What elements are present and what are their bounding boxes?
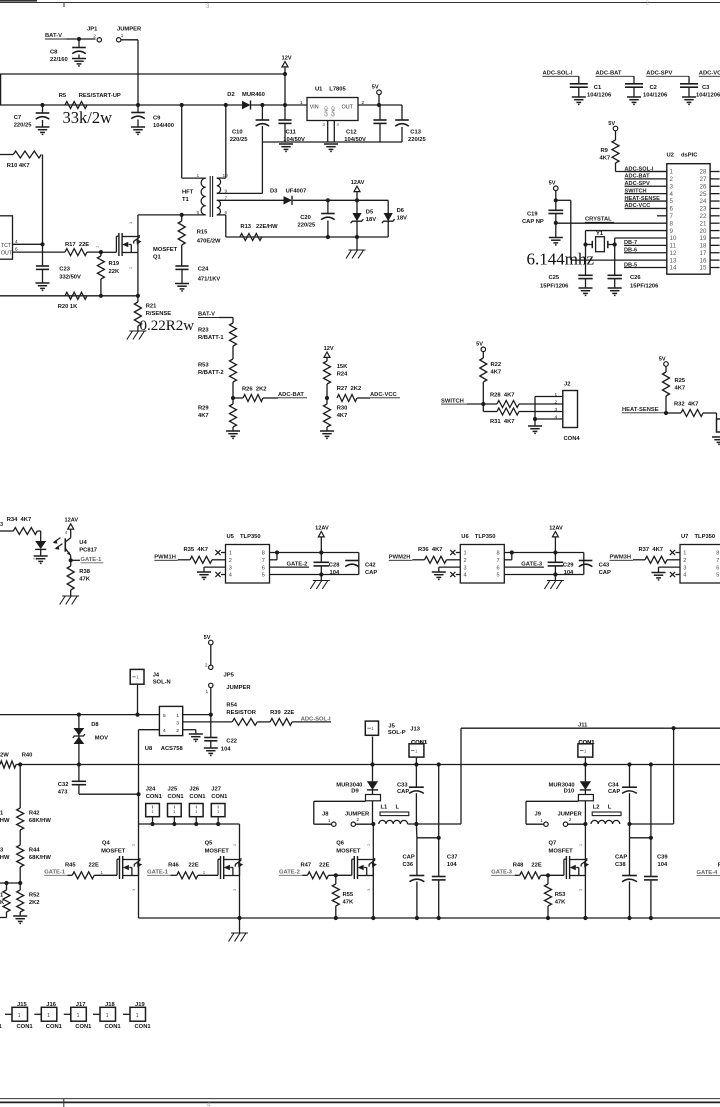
resistor R54 (232, 718, 257, 725)
svg-text:D5: D5 (366, 210, 374, 216)
resistor R53 (230, 359, 237, 382)
svg-text:U6: U6 (461, 534, 469, 540)
junction C39 rail (649, 916, 653, 920)
svg-text:L: L (608, 805, 612, 811)
wire U2 pin7 stub (657, 215, 667, 217)
svg-text:104/50V: 104/50V (344, 137, 366, 143)
no-connect X U6 pin4 (450, 572, 455, 577)
junction pin4-C23 (40, 242, 44, 246)
connector J5 (365, 721, 378, 735)
ground R30 (320, 430, 334, 432)
capacitor C33 (415, 765, 417, 788)
junction 5V-C12 (377, 103, 381, 107)
junction J26 bus (194, 822, 198, 826)
junction J13 rail (414, 762, 418, 766)
svg-text:R45 22E: R45 22E (65, 863, 99, 869)
wire R42 chain top (19, 765, 21, 809)
svg-text:CAP: CAP (403, 855, 415, 861)
svg-text:8: 8 (497, 551, 500, 557)
ground U7 pin3 (652, 572, 666, 574)
junction C38 jog (649, 836, 653, 840)
svg-text:D8: D8 (91, 722, 99, 728)
svg-text:TLP350: TLP350 (240, 534, 261, 540)
svg-text:104/1206: 104/1206 (587, 93, 612, 99)
opto U4 light arrows (54, 538, 61, 543)
svg-text:R21: R21 (146, 304, 157, 310)
svg-text:5: 5 (670, 198, 674, 205)
wire R27 to label (357, 397, 370, 399)
svg-text:C29: C29 (563, 562, 574, 568)
svg-text:4: 4 (229, 573, 232, 579)
wire C32 bottom (78, 785, 80, 795)
svg-text:1: 1 (555, 392, 558, 398)
svg-text:12AV: 12AV (315, 525, 329, 531)
connector J13 (409, 744, 424, 757)
wire U8 pin4 down (138, 730, 140, 824)
junction C34 rail (627, 762, 631, 766)
wire D2 cathode (251, 104, 308, 106)
wire R32 to J3 (703, 412, 717, 414)
capacitor C11 plates (278, 119, 291, 121)
svg-text:T1: T1 (182, 197, 190, 203)
junction J11 right (672, 726, 676, 730)
wire HVDC row (0, 104, 242, 106)
svg-text:JUMPER: JUMPER (117, 27, 142, 33)
svg-text:R35 4K7: R35 4K7 (184, 547, 209, 553)
transistor Q5 (217, 874, 220, 876)
opto driver U6 (460, 545, 504, 584)
capacitor C36 (416, 838, 418, 876)
wire J8 pin2 to node (356, 823, 374, 825)
junction D5 top (355, 198, 359, 202)
svg-text:15PF/1206: 15PF/1206 (540, 284, 569, 290)
svg-text:R19: R19 (109, 261, 120, 267)
svg-text:D10: D10 (564, 789, 575, 795)
ground C9 (131, 126, 145, 128)
svg-text:104: 104 (564, 570, 574, 576)
svg-text:C13: C13 (410, 130, 421, 136)
zener D6 (387, 200, 389, 213)
svg-text:CON1: CON1 (105, 1024, 122, 1030)
wire C2 drop (633, 76, 635, 84)
wire 5V stem R22 (482, 352, 484, 358)
wire GATE-1 to R45 (68, 874, 73, 876)
svg-text:MOSFET: MOSFET (101, 849, 126, 855)
wire U2 pin 18 stub (710, 244, 720, 246)
wire R54 to R39 (257, 721, 270, 723)
svg-text:2: 2 (670, 176, 674, 183)
svg-text:J5: J5 (388, 724, 395, 730)
capacitor C12 plates (373, 119, 386, 121)
svg-text:R53: R53 (555, 892, 566, 898)
wire U2 pin 16 stub (710, 259, 720, 261)
ground C1 (572, 96, 586, 98)
svg-text:VIN: VIN (310, 104, 319, 110)
svg-text:CAP: CAP (365, 570, 377, 576)
svg-text:CAP: CAP (608, 789, 620, 795)
junction heat-sense (664, 411, 668, 415)
svg-text:R13: R13 (240, 224, 251, 230)
wire C38 jog (629, 824, 631, 838)
wire Y1 left vertical (585, 231, 587, 245)
ground C3 (682, 96, 696, 98)
opto U4 LED (35, 541, 46, 549)
svg-text:33k/2w: 33k/2w (63, 108, 113, 127)
junction D10 L2 node (583, 822, 587, 826)
svg-text:GATE-2: GATE-2 (279, 870, 300, 876)
svg-text:ADC-SPV: ADC-SPV (646, 71, 672, 77)
svg-text:1: 1 (197, 173, 200, 179)
opto U4 transistor (64, 538, 66, 551)
resistor R52 (17, 890, 24, 912)
wire U7 pin3 gnd (659, 566, 681, 568)
svg-text:2: 2 (683, 558, 686, 564)
junction J4 wire (135, 713, 139, 717)
wire Q1 source down (137, 253, 139, 296)
wire J27 stem (217, 817, 219, 824)
wire JP5 5V stem (210, 645, 212, 665)
wire U2 pin 19 stub (710, 237, 720, 239)
svg-text:CON1: CON1 (189, 794, 206, 800)
diode D3 (284, 196, 293, 204)
svg-text:C36: C36 (403, 862, 414, 868)
junction C8 tap (77, 37, 81, 41)
svg-text:220/25: 220/25 (298, 223, 317, 229)
svg-text:R36 4K7: R36 4K7 (418, 547, 443, 553)
svg-text:332/50V: 332/50V (59, 275, 81, 281)
junction J24 bus (150, 822, 154, 826)
capacitor C10 (261, 105, 263, 120)
transformer T1 primary wires (181, 105, 183, 178)
svg-text:K/HW: K/HW (0, 855, 10, 861)
resistor R34 (13, 528, 37, 535)
capacitor C24 plates (175, 265, 188, 267)
wire drain bus Q4 Q5 (139, 823, 240, 825)
wire U2 pin 22 stub (710, 215, 720, 217)
resistor R9 (612, 140, 619, 163)
wire J2 pin1-pin4 vertical (534, 397, 536, 420)
wire J2 pin1 (535, 396, 563, 398)
wire U2 pin 25 stub (710, 193, 720, 195)
capacitor C9 plates (131, 112, 145, 114)
wire U2 pin 17 stub (710, 252, 720, 254)
ground D5 (349, 249, 366, 251)
svg-text:1: 1 (136, 1013, 139, 1019)
wire L1 to corner (408, 823, 461, 825)
capacitor C26 plates (608, 274, 622, 276)
svg-text:ADC-BAT: ADC-BAT (278, 392, 304, 398)
svg-text:U2: U2 (667, 153, 674, 159)
resistor R19 (100, 252, 102, 256)
wire J2 pin4 (535, 418, 563, 420)
svg-text:PC817: PC817 (79, 548, 97, 554)
svg-text:GATE-3: GATE-3 (521, 561, 543, 567)
connector J26 (189, 804, 203, 817)
svg-text:J25: J25 (168, 787, 178, 793)
wire C3 drop (688, 76, 690, 84)
capacitor C9 (137, 105, 139, 112)
svg-text:4: 4 (555, 415, 558, 421)
wire PWM2H to R36 (412, 559, 424, 561)
wire U1 out (358, 104, 402, 106)
svg-text:U4: U4 (79, 540, 87, 546)
wire J18 stub (93, 1013, 100, 1015)
svg-text:C12: C12 (346, 130, 357, 136)
junction J2 pin4 gnd (533, 417, 537, 421)
junction C29 bottom (553, 572, 557, 576)
ground C19 (549, 237, 563, 239)
wire R44 to left chain (0, 882, 20, 884)
svg-text:R39 22E: R39 22E (270, 710, 294, 716)
svg-text:R34 4K7: R34 4K7 (7, 517, 32, 523)
svg-text:CON1: CON1 (135, 1024, 152, 1030)
svg-text:25: 25 (700, 191, 707, 198)
svg-text:3: 3 (555, 407, 558, 413)
sheet top border (0, 2, 720, 4)
svg-text:CRYSTAL: CRYSTAL (585, 217, 612, 223)
svg-text:CAP NP: CAP NP (522, 219, 544, 225)
transformer T1 sec winding lower (217, 200, 221, 215)
svg-text:4: 4 (683, 573, 686, 579)
svg-text:dsPIC: dsPIC (681, 153, 698, 159)
wire main positive rail (16, 764, 720, 766)
connector J4 (130, 669, 144, 684)
svg-text:UF4007: UF4007 (286, 189, 307, 195)
wire J9 pin2 to node (568, 823, 586, 825)
capacitor C13 (401, 105, 403, 120)
svg-text:R25: R25 (675, 378, 686, 384)
svg-text:OUT: OUT (1, 251, 13, 257)
svg-text:R30: R30 (337, 406, 348, 412)
wire R34 to LED (37, 530, 40, 532)
wire PWM1H to R35 (178, 559, 190, 561)
svg-text:ADC-SOL-I: ADC-SOL-I (301, 716, 331, 722)
svg-text:C2: C2 (650, 85, 657, 91)
resistor R21 (137, 296, 139, 302)
svg-text:1: 1 (670, 169, 674, 176)
svg-text:C9: C9 (153, 116, 161, 122)
junction 12V-C11 (283, 103, 287, 107)
resistor R23 (232, 318, 234, 324)
svg-text:ADC-VCC: ADC-VCC (370, 392, 398, 398)
ground J2 (528, 425, 542, 427)
svg-text:RESISTOR: RESISTOR (226, 710, 256, 716)
varistor D8 (74, 728, 85, 735)
svg-text:12V: 12V (324, 346, 334, 352)
svg-text:15: 15 (700, 265, 707, 272)
svg-text:SWITCH: SWITCH (441, 398, 464, 404)
capacitor C33 plates (409, 786, 424, 788)
wire SWITCH (467, 403, 497, 405)
ground U8 pin2 (189, 733, 203, 735)
svg-text:J13: J13 (410, 726, 420, 732)
svg-text:220/25: 220/25 (230, 137, 249, 143)
transformer T1 left winding (201, 178, 206, 215)
capacitor C43 plates (579, 560, 593, 562)
connector J25 (168, 804, 182, 817)
ground C25 (579, 287, 593, 289)
svg-text:GATE-4: GATE-4 (697, 870, 719, 876)
wire R46 to Q5 (198, 874, 218, 876)
svg-text:471/1KV: 471/1KV (198, 277, 221, 283)
wire J11 drop to L2 (673, 728, 675, 824)
svg-text:L2: L2 (593, 805, 600, 811)
wire C19 top stem (555, 191, 557, 211)
junction C19 top (554, 198, 558, 202)
junction R44-R52 (18, 881, 22, 885)
wire L2 out to corner (630, 823, 674, 825)
svg-text:U8: U8 (145, 746, 153, 752)
resistor R42 (17, 808, 24, 830)
svg-text:22E/HW: 22E/HW (256, 224, 278, 230)
resistor R10 (13, 151, 41, 158)
svg-text:C8: C8 (50, 50, 58, 56)
svg-text:21: 21 (700, 220, 707, 227)
wire R37 to U7 pin2 (667, 559, 680, 561)
svg-text:J2: J2 (564, 382, 570, 388)
net J11 riser (460, 728, 462, 824)
svg-text:R24: R24 (337, 372, 348, 378)
resistor R20 (65, 292, 87, 299)
svg-text:20: 20 (700, 228, 707, 235)
svg-text:JUMPER: JUMPER (226, 685, 251, 691)
capacitor C19 plates (548, 209, 563, 211)
svg-text:6: 6 (497, 565, 500, 571)
wire U8 pin2 gnd (183, 729, 196, 731)
svg-text:R28 4K7: R28 4K7 (490, 393, 515, 399)
svg-text:J26: J26 (189, 787, 199, 793)
ground output bus (231, 932, 248, 934)
junction U4 emitter (69, 558, 73, 562)
svg-text:470E/2W: 470E/2W (197, 239, 221, 245)
IC TOP box clipped (0, 216, 13, 259)
wire dot to R26 (233, 397, 243, 399)
svg-text:PWM3H: PWM3H (610, 555, 632, 561)
svg-text:GATE-3: GATE-3 (491, 870, 513, 876)
svg-text:4K7: 4K7 (600, 156, 611, 162)
svg-text:C42: C42 (365, 563, 376, 569)
capacitor C8 plates (72, 47, 86, 49)
capacitor C36 plates (410, 875, 425, 877)
svg-text:14: 14 (670, 265, 677, 272)
wire R34 row (0, 530, 13, 532)
wire pin13 row (571, 259, 667, 261)
svg-text:5: 5 (497, 573, 500, 579)
junction U6 pin8 (510, 550, 514, 554)
svg-text:4: 4 (670, 191, 674, 198)
wire 12V arrow stem (284, 67, 286, 105)
connector J24 (146, 804, 160, 817)
svg-text:6: 6 (262, 565, 265, 571)
wire TOP pin4 (13, 243, 43, 245)
svg-text:23: 23 (700, 206, 707, 213)
capacitor C28 plates (314, 561, 330, 563)
wire 12V rail top (0, 73, 285, 75)
svg-text:CON4: CON4 (564, 436, 581, 442)
capacitor C13 plates (395, 119, 409, 121)
opto driver U5 (226, 545, 270, 584)
resistor R15 (181, 215, 183, 221)
svg-text:1: 1 (77, 1013, 80, 1019)
wire Y1 to C26 (614, 245, 616, 276)
svg-text:C19: C19 (527, 212, 538, 218)
wire U8 pin1 to JP5 (183, 714, 211, 716)
svg-text:MOSFET: MOSFET (205, 849, 230, 855)
svg-text:C10: C10 (232, 130, 243, 136)
ground U4 LED (34, 555, 48, 557)
svg-text:J24: J24 (146, 787, 156, 793)
capacitor C7 plates (36, 112, 50, 114)
zener D5 symbol (352, 213, 361, 221)
wire JP5 to node (210, 688, 212, 715)
wire 12V stem R24 (326, 357, 328, 361)
svg-text:104/1206: 104/1206 (643, 93, 668, 99)
resistor R28 (497, 401, 519, 408)
ground C22 (204, 747, 218, 749)
svg-text:12AV: 12AV (351, 180, 365, 186)
resistor R55 (335, 875, 337, 884)
capacitor C22 (210, 715, 212, 738)
wire R39 to ADC-SOL-I (292, 721, 331, 723)
svg-text:R54: R54 (226, 703, 237, 709)
junction R40-R42 (18, 762, 22, 766)
svg-text:C43: C43 (599, 563, 610, 569)
svg-text:4K7: 4K7 (491, 370, 502, 376)
wire R17 to gate (87, 251, 101, 253)
svg-text:22: 22 (700, 213, 707, 220)
svg-text:R22: R22 (491, 362, 502, 368)
wire R48 to Q7 (541, 874, 564, 876)
svg-text:L: L (396, 805, 400, 811)
wire pin10 row (615, 237, 667, 239)
resistor R24 (324, 361, 331, 384)
wire U2 pin 23 stub (710, 207, 720, 209)
ground C26 (608, 287, 622, 289)
svg-text:R5: R5 (59, 93, 67, 99)
junction R53 tap (546, 873, 550, 877)
connector J3 clipped (717, 419, 720, 432)
junction D10 rail (583, 762, 587, 766)
svg-text:C20: C20 (300, 215, 311, 221)
wire R35 to pin2 (212, 559, 226, 561)
wire GATE-2 to R47 (303, 874, 308, 876)
svg-text:22K: 22K (109, 269, 120, 275)
junction C36 rail (415, 916, 419, 920)
capacitor C34 (629, 765, 631, 788)
svg-text:Y1: Y1 (596, 231, 604, 237)
svg-text:MOSFET: MOSFET (336, 849, 361, 855)
svg-text:D9: D9 (351, 789, 359, 795)
svg-text:R20 1K: R20 1K (58, 304, 78, 310)
junction D9 L1 node (371, 822, 375, 826)
resistor R39 (270, 718, 292, 725)
svg-text:C26: C26 (630, 275, 641, 281)
wire Y1 left lead (586, 244, 593, 246)
svg-text:Q5: Q5 (205, 841, 214, 847)
svg-text:CAP: CAP (599, 570, 611, 576)
svg-text:2: 2 (229, 558, 232, 564)
wire GATE-1 to R46 (171, 874, 177, 876)
svg-text:3: 3 (670, 183, 674, 190)
svg-text:5: 5 (716, 573, 719, 579)
wire J5 stem (372, 737, 374, 765)
wire U6 pin8-7 tie (511, 553, 513, 560)
svg-text:1: 1 (121, 33, 124, 38)
svg-text:3: 3 (176, 720, 179, 726)
svg-text:104: 104 (330, 570, 340, 576)
svg-text:C38: C38 (615, 862, 626, 868)
svg-text:1: 1 (683, 551, 686, 557)
